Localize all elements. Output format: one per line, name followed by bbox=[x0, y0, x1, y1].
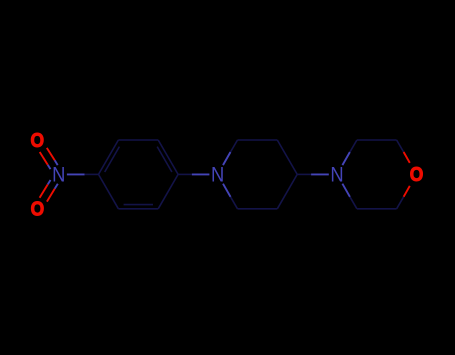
bond N1-C1 (nitro N to benzene) bbox=[67, 173, 99, 175]
bond C9-N3 (piperidine to morpholine N) bbox=[297, 173, 329, 175]
bond C15-N3 (morpholine lower-left edge) bbox=[342, 184, 357, 209]
svg-text:N: N bbox=[52, 163, 65, 187]
bond C5=C6 inner line bbox=[124, 204, 153, 206]
bond O3-C14 (morpholine lower-right edge) bbox=[397, 186, 410, 209]
svg-text:O: O bbox=[31, 198, 45, 221]
svg-text:N: N bbox=[330, 163, 343, 187]
svg-text:O: O bbox=[410, 164, 424, 187]
bond C3=C4 inner line bbox=[157, 147, 172, 172]
bond C10-C11 (piperidine bottom edge) bbox=[238, 208, 278, 210]
bond C3-C4 (benzene upper-right edge) bbox=[158, 140, 178, 174]
bond C9-C10 (piperidine lower-right edge) bbox=[277, 174, 297, 208]
bond C13-O3 (morpholine upper-right edge) bbox=[397, 140, 410, 163]
bond C5-C6 (benzene bottom edge) bbox=[118, 208, 158, 210]
bond N2-C7 (piperidine upper-left edge) bbox=[223, 140, 238, 165]
bond C6-C1 (benzene lower-left edge) bbox=[99, 174, 119, 208]
bond C14-C15 (morpholine bottom edge) bbox=[357, 208, 397, 210]
bond C1-C2 (benzene upper-left edge) bbox=[99, 140, 119, 174]
bond C12-C13 (morpholine top edge) bbox=[357, 139, 397, 141]
bond N1=O2 (nitro double bond, lower) bbox=[40, 180, 58, 202]
bond C4-N2 (benzene to piperidine N) bbox=[178, 173, 209, 175]
bond C2-C3 (benzene top edge) bbox=[118, 139, 158, 141]
svg-text:N: N bbox=[211, 163, 224, 187]
bond C1=C2 inner line bbox=[105, 147, 120, 172]
bond N3-C12 (morpholine upper-left edge) bbox=[342, 140, 357, 165]
bond C8-C9 (piperidine upper-right edge) bbox=[277, 140, 297, 174]
bond C11-N2 (piperidine lower-left edge) bbox=[223, 184, 238, 209]
bond N1=O1 (nitro double bond, upper) bbox=[40, 148, 58, 169]
bond C7-C8 (piperidine top edge) bbox=[238, 139, 278, 141]
svg-text:O: O bbox=[31, 130, 45, 153]
bond C4-C5 (benzene lower-right edge) bbox=[158, 174, 178, 208]
